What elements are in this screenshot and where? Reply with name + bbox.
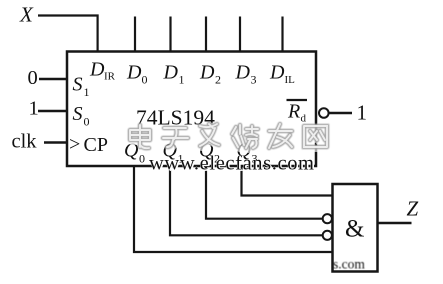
svg-text:0: 0	[139, 152, 145, 166]
svg-text:D: D	[235, 62, 251, 84]
svg-text:D: D	[126, 62, 142, 84]
wire S0 input	[38, 110, 67, 112]
svg-text:S: S	[73, 103, 83, 125]
pin D1 top wire	[169, 17, 171, 52]
wire clk input	[44, 141, 67, 143]
pin label D_2	[199, 62, 221, 87]
node Z label	[407, 197, 419, 221]
wire AND output to Z	[378, 222, 412, 224]
svg-text:Z: Z	[407, 197, 419, 221]
svg-text:1: 1	[179, 73, 185, 87]
svg-text:1: 1	[357, 101, 368, 125]
svg-text:IR: IR	[104, 71, 116, 83]
inverter bubble on R_d pin	[319, 108, 329, 118]
svg-text:D: D	[89, 59, 105, 81]
wire Q1 to AND gate input 3	[170, 166, 323, 235]
pin label Q_1	[163, 140, 184, 166]
svg-text:d: d	[301, 113, 307, 125]
pin label D_IR	[89, 59, 116, 83]
node clk label	[12, 131, 38, 153]
svg-text:CP: CP	[84, 134, 108, 156]
pin label CP with clock edge mark	[69, 134, 108, 157]
wire Q0 to AND gate input 4	[134, 166, 333, 252]
watermark fragment inside gate	[333, 257, 365, 272]
pin label Q_2	[199, 140, 220, 166]
pin label D_1	[163, 62, 185, 87]
svg-text:www.elecfans.com: www.elecfans.com	[149, 153, 314, 175]
wire S1 input	[39, 78, 67, 80]
pin label Q_3	[237, 140, 258, 166]
watermark	[130, 124, 329, 175]
svg-text:&: &	[345, 216, 364, 243]
wire R_d to constant 1	[329, 112, 352, 114]
pin D2 top wire	[205, 17, 207, 52]
svg-text:IL: IL	[285, 74, 296, 86]
svg-text:R: R	[287, 101, 300, 123]
svg-text:1: 1	[29, 98, 39, 120]
wire Q3 to AND gate input 1	[242, 166, 333, 196]
wire Q2 to AND gate input 2	[206, 166, 323, 219]
svg-text:D: D	[199, 62, 215, 84]
svg-text:clk: clk	[12, 131, 38, 153]
inverter bubble on AND input 3	[323, 231, 332, 240]
svg-text:1: 1	[84, 85, 90, 99]
node constant 1	[29, 98, 39, 120]
pin label S_0	[73, 103, 90, 129]
pin D0 top wire	[134, 17, 136, 52]
svg-text:D: D	[163, 62, 179, 84]
wire X input to D_IR pin	[38, 16, 98, 52]
svg-text:s.com: s.com	[333, 257, 365, 272]
svg-text:0: 0	[142, 73, 148, 87]
pin label D_0	[126, 62, 148, 87]
svg-text:2: 2	[215, 73, 221, 87]
pin label R_d with overbar	[287, 100, 308, 125]
svg-text:S: S	[73, 74, 83, 96]
svg-text:X: X	[19, 3, 34, 27]
svg-text:D: D	[269, 62, 285, 84]
AND gate G1 body	[333, 184, 378, 272]
pin label Q_0	[124, 140, 145, 166]
pin label D_3	[235, 62, 257, 87]
pin label S_1	[73, 74, 90, 100]
node constant 0	[28, 67, 38, 89]
IC U1 74LS194 body	[67, 52, 316, 167]
svg-text:3: 3	[251, 73, 257, 87]
AND gate symbol &	[345, 216, 364, 243]
node X label	[19, 3, 34, 27]
label 74LS194	[136, 106, 215, 130]
svg-text:0: 0	[28, 67, 38, 89]
pin label D_IL	[269, 62, 295, 87]
svg-text:0: 0	[84, 115, 90, 129]
pin D3 top wire	[239, 17, 241, 52]
svg-text:>: >	[69, 134, 80, 156]
inverter bubble on AND input 2	[323, 214, 332, 223]
pin DIL top wire	[281, 17, 283, 52]
node constant 1 (right)	[357, 101, 368, 125]
